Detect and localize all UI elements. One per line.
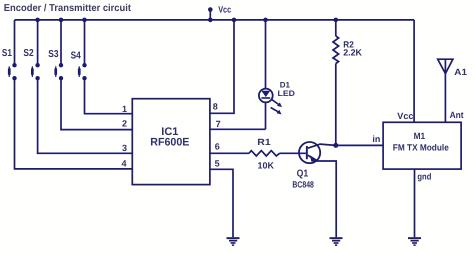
svg-text:S2: S2 xyxy=(23,48,34,59)
svg-text:Encoder / Transmitter circuit: Encoder / Transmitter circuit xyxy=(4,3,132,14)
module M1 FM TX xyxy=(372,110,463,181)
wire rail to R2 xyxy=(335,20,337,36)
pin 2 xyxy=(122,119,127,129)
svg-text:M1: M1 xyxy=(414,131,426,141)
resistor R2 2.2K xyxy=(333,36,362,64)
switch S3 xyxy=(48,49,63,80)
pin 4 xyxy=(121,159,126,169)
node R2 rail junction xyxy=(334,18,339,23)
wire S4 to pin1 xyxy=(85,78,133,114)
title: Encoder / Transmitter circuit xyxy=(4,3,132,14)
wire Vcc top rail xyxy=(15,19,415,21)
wire LED cathode to pin7 xyxy=(265,102,267,129)
svg-text:in: in xyxy=(372,134,380,144)
svg-text:FM TX Module: FM TX Module xyxy=(393,143,449,153)
svg-text:10K: 10K xyxy=(258,161,275,171)
wire S3 top xyxy=(60,20,62,65)
svg-text:2.2K: 2.2K xyxy=(343,48,362,58)
antenna A1 xyxy=(438,59,467,122)
node pin8 rail junction xyxy=(232,18,237,23)
switch S1 xyxy=(2,48,17,81)
pin 6 xyxy=(215,141,220,151)
wire pin7 to LED xyxy=(210,128,266,130)
svg-text:LED: LED xyxy=(278,89,296,98)
svg-text:Q1: Q1 xyxy=(297,169,309,180)
wire M1 gnd to ground xyxy=(414,169,416,237)
svg-text:RF600E: RF600E xyxy=(150,136,189,148)
wire R1 to base xyxy=(280,152,306,154)
resistor R1 10K xyxy=(249,137,280,170)
wire rail to LED anode xyxy=(265,20,267,89)
pin 5 xyxy=(215,158,220,168)
switch S4 xyxy=(71,50,87,80)
diode D1 LED xyxy=(259,81,295,115)
wire pin8 to rail xyxy=(210,20,234,113)
wire S1 to pin4 xyxy=(15,78,133,169)
svg-text:8: 8 xyxy=(213,102,218,112)
svg-text:1: 1 xyxy=(122,104,127,114)
svg-text:R1: R1 xyxy=(257,137,270,147)
svg-text:Vcc: Vcc xyxy=(218,4,231,14)
svg-text:Ant: Ant xyxy=(450,110,464,120)
pin 1 xyxy=(122,104,127,114)
svg-text:BC848: BC848 xyxy=(292,179,314,189)
node S2 rail junction xyxy=(35,18,40,23)
wire collector node to M1 in xyxy=(336,144,383,146)
node collector junction xyxy=(333,143,338,148)
wire S1 top xyxy=(14,20,16,65)
svg-text:2: 2 xyxy=(122,119,127,129)
wire S4 top xyxy=(84,20,86,65)
wire S2 top xyxy=(37,20,39,65)
pin 3 xyxy=(122,143,127,153)
transistor Q1 BC848 xyxy=(292,142,336,189)
wire S2 to pin3 xyxy=(38,78,133,153)
pin 8 xyxy=(213,102,218,112)
node S3 rail junction xyxy=(59,18,64,23)
wire pin6 to R1 xyxy=(210,152,249,154)
svg-text:S3: S3 xyxy=(48,49,59,60)
wire rail to M1 Vcc xyxy=(413,20,415,122)
wire emitter to ground xyxy=(335,161,337,237)
node LED rail junction xyxy=(263,18,268,23)
switch S2 xyxy=(23,48,39,80)
ground below M1 xyxy=(408,237,421,246)
svg-text:S1: S1 xyxy=(2,48,12,59)
ground below pin5 xyxy=(227,237,240,246)
svg-text:gnd: gnd xyxy=(417,171,431,181)
svg-text:S4: S4 xyxy=(71,50,82,61)
wire R2 to collector node xyxy=(335,64,337,146)
wire S3 to pin2 xyxy=(61,78,132,129)
node S4 rail junction xyxy=(82,18,87,23)
pin 7 xyxy=(216,119,221,129)
Vcc terminal xyxy=(208,4,231,22)
svg-text:A1: A1 xyxy=(454,67,467,77)
op IC1 RF600E xyxy=(132,99,210,185)
wire pin5 to ground xyxy=(210,169,233,237)
svg-text:4: 4 xyxy=(121,159,126,169)
svg-text:3: 3 xyxy=(122,143,127,153)
svg-text:7: 7 xyxy=(216,119,221,129)
ground below emitter xyxy=(330,237,343,246)
svg-text:5: 5 xyxy=(215,158,220,168)
svg-text:Vcc: Vcc xyxy=(397,111,413,121)
svg-text:6: 6 xyxy=(215,141,220,151)
